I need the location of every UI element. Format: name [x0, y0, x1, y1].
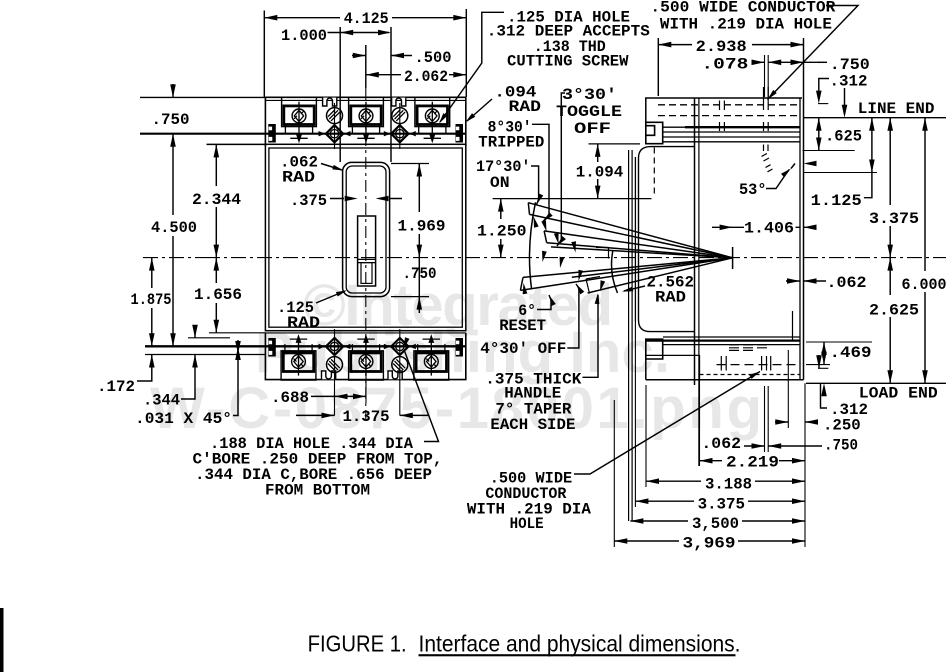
arrows .500 — [353, 53, 366, 59]
svg-text:.750: .750 — [824, 437, 858, 455]
caption FIGURE 1 — [308, 631, 741, 657]
2.938 ext left — [657, 38, 659, 96]
arrow .375 THICK leader — [595, 293, 601, 304]
toggle RESET bottom edge — [520, 258, 732, 291]
conductor hole ticks load-end — [721, 356, 770, 371]
load-end bottom edge — [646, 359, 804, 380]
toggle TRIPPED lower edge — [547, 243, 733, 258]
hole centerline vertical bottom-left — [334, 329, 336, 416]
escutcheon top ref line — [589, 143, 641, 145]
svg-text:ON: ON — [490, 174, 510, 192]
ext 3.375 (escutcheon) — [634, 322, 636, 508]
.344 lower arrow line + elbow to label — [181, 355, 195, 400]
internal section line — [698, 98, 700, 466]
.094 RAD leader — [467, 99, 492, 121]
foot bottom ext line (.172/.344) — [145, 354, 265, 356]
arrows .688 — [335, 394, 348, 400]
2.219 dim row — [700, 460, 806, 462]
svg-text:RAD: RAD — [282, 169, 315, 187]
2.344 ref line — [207, 143, 266, 145]
toggle swing envelope lines — [629, 150, 633, 521]
svg-text:.500 WIDE CONDUCTOR: .500 WIDE CONDUCTOR — [650, 0, 835, 16]
toggle recess outer — [343, 162, 390, 296]
bottom edge notch 1 — [322, 371, 336, 379]
mounting clip top-left — [268, 124, 276, 143]
svg-text:EACH SIDE: EACH SIDE — [490, 416, 575, 434]
.172 lower arrow line + elbow to label — [137, 355, 152, 382]
2.344 dim line — [215, 144, 217, 257]
.750 (view) dim line — [418, 258, 420, 313]
load-end contact hatches — [729, 345, 767, 351]
body bottom ext line (1.656) — [209, 332, 265, 334]
toggle escutcheon outer edge — [639, 147, 695, 332]
terminal block 1 top — [282, 97, 317, 143]
conductor top ext line — [818, 103, 828, 105]
front face (left) of case — [694, 98, 696, 385]
ext 3.969 — [613, 400, 615, 547]
arrows 2.938 — [658, 42, 671, 48]
angular dimension arc — [529, 202, 535, 288]
ext line recess-left up (1.000) — [339, 27, 341, 162]
arrows 1.000 — [340, 30, 353, 36]
.062 right edge dim row — [786, 280, 826, 282]
4.500 dim line — [172, 134, 174, 347]
arrow 4.30 leader — [574, 283, 584, 295]
note leader to mounting hole — [405, 351, 439, 442]
6.000 dim line — [924, 118, 926, 384]
svg-text:2.344: 2.344 — [192, 191, 241, 209]
arrow note leader — [401, 337, 409, 349]
terminal block 3 bottom — [414, 334, 449, 380]
arrows .062 edge — [787, 278, 800, 284]
bottom terminal band — [265, 333, 465, 380]
1.969 top ref line — [391, 163, 429, 165]
1.375 dim line — [296, 414, 428, 416]
arrows .250 — [775, 419, 788, 425]
line-end clamp pocket — [646, 122, 663, 143]
ext right edge down — [804, 383, 806, 547]
.125 RAD leader — [316, 291, 345, 303]
toggle escutcheon outer edge second line — [634, 157, 636, 322]
mounting clip bottom-right — [456, 338, 464, 357]
fan angle arrows — [531, 216, 538, 228]
1.125 ref line — [804, 172, 878, 174]
svg-text:1.375: 1.375 — [343, 408, 390, 426]
2.938 dim line — [658, 44, 803, 46]
arrow top conductor leader — [766, 90, 777, 101]
arrows 2.625 — [887, 258, 893, 271]
svg-text:Interface and physical dimensi: Interface and physical dimensions. — [419, 631, 741, 657]
arrows 3.375 bottom — [635, 498, 648, 504]
svg-text:LOAD END: LOAD END — [859, 385, 938, 403]
svg-text:CUTTING SCREW: CUTTING SCREW — [507, 52, 629, 70]
svg-text:OFF: OFF — [574, 120, 611, 138]
hidden conductor load-end lower — [700, 374, 801, 376]
vertical centerline of front view — [365, 88, 367, 421]
watermark — [150, 273, 762, 441]
.125 DIA HOLE bracket + leader — [440, 12, 504, 122]
arrow .062 RAD leader — [332, 165, 344, 173]
arrows 1.406 — [720, 225, 733, 231]
svg-text:1.250: 1.250 — [477, 223, 527, 241]
svg-text:.062: .062 — [701, 435, 741, 453]
arrows 3.500 — [630, 518, 643, 524]
pole gap holes top right — [384, 108, 416, 143]
.375 THICK leader — [583, 295, 599, 377]
radius arc 2.562 — [612, 250, 618, 293]
.688 dim line — [311, 395, 366, 397]
arrows 2.062 — [366, 72, 379, 78]
svg-text:1.094: 1.094 — [576, 163, 624, 181]
hole centerline vertical bottom-right — [399, 329, 401, 416]
arrows .078 — [752, 60, 765, 66]
svg-text:4.125: 4.125 — [344, 10, 389, 28]
arrow .312 top — [816, 91, 822, 104]
.312 second arrow shaft — [844, 88, 846, 114]
svg-text:3.375: 3.375 — [698, 496, 745, 514]
1.406 dim row — [712, 226, 817, 228]
svg-text:1.875: 1.875 — [131, 291, 172, 309]
2.938 ext right (case edge up) — [803, 38, 805, 98]
arrow .031 chamfer — [235, 347, 241, 360]
hidden conductor load-end — [717, 364, 801, 366]
ext line recess-right up (1.000/.500) — [390, 27, 392, 162]
2.562 RAD leader — [624, 286, 645, 291]
svg-text:2.219: 2.219 — [726, 454, 779, 472]
mounting clip bottom-left — [268, 338, 276, 357]
toggle OFF(3.30) top edge — [551, 247, 733, 258]
3.969 dim row — [614, 540, 805, 542]
toggle RESET upper edge — [523, 258, 733, 278]
svg-text:RAD: RAD — [287, 314, 320, 332]
terminal block 3 top — [415, 97, 450, 143]
svg-text:.375: .375 — [290, 192, 327, 210]
ext line centerline up (.500/2.062) — [365, 45, 367, 88]
arrows 1.656 — [214, 258, 220, 271]
3.375 dim line — [889, 118, 891, 258]
svg-text:W-C-0875-18001.png: W-C-0875-18001.png — [150, 376, 762, 441]
load-end clamp plate lines — [647, 340, 801, 342]
4.30 OFF leader — [567, 284, 579, 348]
LOAD END plane — [806, 382, 946, 384]
scan artifact bar — [0, 608, 4, 672]
terminal block 2 bottom — [349, 334, 384, 380]
svg-text:TOGGLE: TOGGLE — [556, 103, 622, 121]
top edge notch 2 — [392, 98, 406, 106]
arrows 1.125 — [869, 118, 875, 131]
hole centerline vertical top-right — [399, 103, 401, 149]
svg-text:.750: .750 — [152, 111, 190, 129]
svg-text:3°30': 3°30' — [562, 86, 617, 104]
.344 upper arrow line — [194, 325, 196, 338]
svg-text:.344: .344 — [143, 392, 180, 410]
.031 chamfer leader vertical — [233, 340, 238, 416]
svg-text:2.062: 2.062 — [404, 68, 448, 86]
svg-text:.172: .172 — [97, 378, 135, 396]
svg-text:.469: .469 — [830, 344, 872, 362]
arrows 2.219 — [700, 458, 713, 464]
svg-text:LINE END: LINE END — [858, 100, 935, 118]
svg-text:2.938: 2.938 — [696, 38, 747, 56]
arrow .125 RAD leader — [336, 288, 348, 297]
main body outer rect — [265, 144, 465, 330]
arrows .750 view — [417, 297, 423, 310]
svg-text:.078: .078 — [701, 55, 748, 73]
3.375 dim row — [635, 500, 805, 502]
svg-text:3,500: 3,500 — [692, 515, 739, 533]
.078/.750 dim row — [754, 61, 817, 63]
arrows .172 — [149, 355, 155, 368]
arrow conductor bottom leader — [749, 369, 761, 379]
toggle TRIPPED top edge — [544, 231, 733, 258]
svg-text:HANDLE: HANDLE — [504, 384, 561, 402]
.625 dim line — [818, 118, 820, 151]
svg-text:1.656: 1.656 — [194, 286, 242, 304]
arrows .062/.750 bottom — [752, 443, 765, 449]
escutcheon hidden slot line — [653, 148, 655, 197]
svg-text:1.125: 1.125 — [811, 192, 862, 210]
2.625 dim line — [889, 258, 891, 384]
svg-text:FROM BOTTOM: FROM BOTTOM — [265, 482, 370, 500]
dim line 4.125 — [264, 17, 466, 19]
svg-text:.625: .625 — [825, 128, 862, 146]
pole gap holes top left — [319, 108, 351, 143]
3.30 leader — [557, 93, 565, 246]
toggle ON lower edge — [530, 214, 733, 257]
hole centerline vertical top-left — [334, 103, 336, 149]
arrow 17.30 leader — [534, 194, 543, 206]
LINE END plane — [804, 117, 946, 119]
53 leader — [766, 164, 795, 189]
arrows 1.250 — [498, 199, 504, 212]
arrows 3.188 — [646, 478, 659, 484]
svg-text:1.969: 1.969 — [398, 218, 446, 236]
arrows 4.125 — [264, 15, 277, 21]
.688 right ext line — [365, 374, 367, 403]
toggle handle lower inset — [361, 263, 372, 284]
53 deg bend ticks — [762, 145, 773, 172]
load-end pocket step — [646, 355, 700, 379]
svg-text:4°30' OFF: 4°30' OFF — [480, 340, 566, 358]
svg-text:RAD: RAD — [655, 289, 686, 307]
top conductor label leader — [768, 6, 859, 100]
arrow 3.30 leader — [555, 236, 566, 248]
svg-text:3,969: 3,969 — [683, 535, 736, 553]
1.656 dim line — [215, 258, 217, 333]
arrow 53 leader — [804, 161, 817, 167]
bottom band inner edge — [265, 332, 465, 334]
svg-text:4.500: 4.500 — [151, 219, 197, 237]
top edge notch 1 — [323, 98, 337, 106]
breaker outline: top terminal band — [265, 97, 465, 146]
.625 bottom ref line — [803, 150, 855, 152]
.469 ref top line — [806, 341, 872, 343]
arrows 1.875 — [149, 258, 155, 271]
main body inner rect — [269, 148, 462, 327]
arrows 1.969 — [417, 164, 423, 177]
right edge outer — [803, 98, 805, 380]
1.250 dim line — [500, 199, 502, 258]
3.500 dim row — [630, 520, 805, 522]
arrows 3.375 — [887, 118, 893, 131]
svg-text:.750: .750 — [830, 56, 870, 74]
.750 top-left ref lines — [140, 96, 265, 98]
.078 conductor hole ext lines — [765, 55, 769, 97]
dim line .500 — [352, 55, 412, 57]
toggle RESET tip cap — [520, 277, 523, 290]
mounting clip top-right — [456, 124, 464, 143]
svg-text:1.000: 1.000 — [281, 27, 327, 45]
ext .250 — [787, 350, 789, 428]
.312 load arrow shafts — [819, 355, 827, 408]
conductor hole ticks line-end col1 — [720, 101, 725, 132]
svg-text:.031 X 45°: .031 X 45° — [135, 410, 232, 428]
toggle handle mid lines — [358, 259, 376, 262]
conductor label leader bottom — [574, 372, 760, 475]
bottom edge notch 2 — [388, 371, 402, 379]
.469 ref bottom line — [806, 364, 830, 366]
svg-text:.250: .250 — [823, 417, 861, 435]
arrows 1.094 — [595, 144, 601, 157]
arrow .750 top-left — [170, 84, 176, 97]
arrows .625 — [816, 118, 822, 131]
toggle ON tip cap — [528, 203, 529, 215]
arrows .344 — [192, 325, 198, 338]
8.30 leader — [532, 124, 549, 221]
ext conductor hole pair — [765, 386, 769, 452]
svg-text:6.000: 6.000 — [902, 276, 947, 294]
toggle OFF tip cap upper — [596, 248, 609, 259]
6 RESET leader — [537, 295, 551, 310]
arrows .469 — [821, 342, 827, 355]
17.30 leader — [531, 166, 539, 205]
toggle TRIPPED tip cap — [544, 231, 547, 243]
conductor hole ticks line-end col2 — [764, 87, 769, 131]
1.094 dim line — [597, 144, 599, 199]
svg-text:.688: .688 — [271, 389, 309, 407]
toggle handle lower line — [588, 258, 733, 293]
pole gap holes bottom left — [319, 338, 351, 373]
.062/.750 dim row — [744, 445, 822, 447]
svg-text:RESET: RESET — [499, 317, 546, 335]
svg-text:WITH .219 DIA HOLE: WITH .219 DIA HOLE — [660, 15, 832, 33]
.750 bottom ref line — [391, 296, 429, 298]
line-end clamp pocket inner step — [646, 126, 655, 136]
ext line right edge up (4.125/2.062) — [465, 9, 467, 97]
pole gap holes bottom right — [384, 338, 416, 373]
arrow .750 top right — [791, 60, 804, 66]
.750 dim arrow line — [172, 84, 174, 97]
svg-text:53°: 53° — [739, 181, 767, 199]
toggle ON top edge — [528, 203, 732, 258]
arrows 2.344 — [214, 144, 220, 157]
thick contact line — [685, 126, 800, 128]
dim line 1.000 — [328, 32, 390, 34]
hidden conductor line-end bottom — [658, 115, 800, 117]
hidden conductor line-end top — [658, 104, 800, 106]
load-end pocket hidden wall — [792, 311, 794, 340]
.312 elbow + arrow shaft — [819, 79, 829, 101]
inner top edge line — [265, 99, 465, 101]
arrows 4.500 — [170, 134, 176, 147]
arrows .375 — [345, 196, 358, 202]
terminal block 1 bottom — [281, 334, 316, 380]
.312 load ref line — [818, 367, 828, 369]
arrow 6 RESET leader — [547, 294, 556, 306]
svg-text:1.406: 1.406 — [744, 220, 794, 238]
top (line end) surface — [646, 98, 802, 122]
.250 dim row — [775, 421, 818, 423]
arrow .094 RAD leader — [464, 113, 475, 124]
hole centerline bottom ext (1.875/.172) thick — [145, 345, 466, 347]
toggle travel top ref line — [493, 198, 652, 200]
svg-text:3.375: 3.375 — [869, 210, 919, 228]
ext line left edge up (4.125) — [263, 11, 265, 98]
handle tip cap lower — [586, 277, 600, 294]
fan vertex tick — [732, 247, 734, 269]
arrows 6.000 — [922, 118, 928, 131]
svg-text:.500: .500 — [415, 49, 452, 67]
clip top ext line (.344) — [188, 337, 230, 339]
arrows 1.375 — [322, 413, 335, 419]
ext 3.188 (front face) — [645, 385, 647, 487]
arrow .125 DIA HOLE leader — [437, 113, 447, 125]
toggle OFF(4.30) lower edge — [572, 258, 733, 277]
1.969 dim line — [418, 164, 420, 258]
svg-text:FIGURE 1.: FIGURE 1. — [308, 631, 407, 657]
horizontal centerline (full drawing) — [143, 257, 946, 259]
.469 dim line — [823, 342, 825, 365]
arrow 2.562 RAD — [621, 287, 633, 294]
line-end terminal plate lines — [663, 127, 800, 142]
ext 2.219 — [699, 380, 701, 466]
.750 leader to label — [817, 61, 827, 63]
svg-text:3.188: 3.188 — [705, 476, 752, 494]
arrows .312 load — [816, 355, 822, 368]
1.125 dim line + elbow — [864, 118, 872, 198]
svg-text:.750: .750 — [403, 265, 437, 283]
dim line 2.062 — [366, 74, 467, 76]
arrow 8.30 leader — [541, 212, 552, 223]
ext 3.500 pair bottoms — [629, 520, 633, 522]
svg-text:HOLE: HOLE — [510, 515, 544, 533]
svg-text:TRIPPED: TRIPPED — [478, 133, 544, 151]
arrows 3.969 — [614, 538, 627, 544]
svg-text:.062: .062 — [827, 274, 867, 292]
1.875 dim line — [151, 258, 153, 347]
.375 dim arrows lines — [330, 198, 402, 200]
.062 RAD leader — [321, 164, 342, 171]
svg-text:RAD: RAD — [509, 98, 542, 116]
svg-text:.312: .312 — [830, 73, 868, 91]
svg-text:2.625: 2.625 — [869, 302, 919, 320]
terminal block 2 top — [349, 97, 384, 143]
toggle recess inner — [346, 166, 386, 293]
toggle handle — [358, 216, 376, 286]
3.188 dim row — [646, 480, 805, 482]
right edge inner — [799, 98, 801, 380]
load-end clamp pocket — [646, 339, 663, 359]
